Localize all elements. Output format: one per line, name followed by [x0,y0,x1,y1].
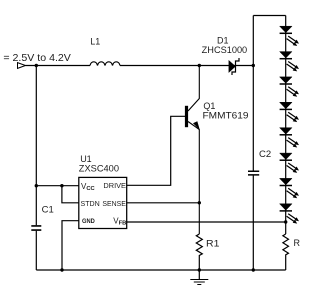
svg-text:STDN: STDN [81,199,100,208]
wire: left vertical rail [35,66,37,226]
junction: Vcc tap on left rail [35,184,38,187]
svg-text:DRIVE: DRIVE [103,181,126,190]
LED 7 of string [280,153,299,173]
wire: Vcc feed to U1 [36,185,79,187]
LED 6 of string [280,128,299,148]
svg-text:C2: C2 [259,149,271,160]
junction: STDN tie to Vcc [60,184,63,187]
LED 2 of string [280,26,299,46]
wire: LED string vertical [285,16,287,235]
LED 8 of string [280,178,299,198]
junction: GND pin on bottom rail [60,268,63,271]
junction: diode output / C2 branch [252,64,255,67]
LED 4 of string [280,77,299,97]
junction: VFB at LED cathode / R [284,220,287,223]
resistor R1 [196,234,202,270]
wire: vertical branch x=253 top rail down to main wire [252,16,254,66]
diode D1 (schottky) [229,58,239,75]
LED 9 of string [280,204,299,224]
wire: shutdown tie jog [62,186,79,203]
svg-text:GND: GND [82,219,95,225]
junction: C2 on bottom rail [252,268,255,271]
svg-text:R: R [294,238,301,248]
svg-text:SENSE: SENSE [102,199,126,208]
wire: GND pin to bottom rail [62,221,79,270]
input arrow [18,63,26,69]
svg-text:R1: R1 [206,239,219,250]
svg-text:ZHCS1000: ZHCS1000 [202,45,248,55]
svg-text:ZXSC400: ZXSC400 [79,164,119,174]
wire: DRIVE to Q1 base [127,116,185,185]
capacitor C1 [31,226,41,230]
inductor L1 [90,62,120,66]
LED 3 of string [280,52,299,72]
wire: SENSE line [127,202,200,204]
wire: top rail from C2 branch to LED string [253,15,285,17]
wire: main horizontal supply wire [26,65,91,67]
svg-text:FMMT619: FMMT619 [203,110,249,120]
LED 5 of string [280,102,299,122]
svg-text:C1: C1 [42,205,54,216]
svg-text:= 2.5V to 4.2V: = 2.5V to 4.2V [3,53,71,64]
junction: input node on supply wire [35,64,38,67]
wire: bottom ground rail [36,269,285,271]
wire: VFB line [127,221,286,223]
IC U1 ZXSC400 [79,177,127,228]
resistor R [283,234,289,270]
junction: Q1 collector on supply wire [198,64,201,67]
junction: SENSE at Q1 emitter [198,201,201,204]
svg-text:VFB: VFB [113,217,126,227]
junction: R1 / ground on bottom rail [198,268,201,271]
capacitor C2 [248,171,259,175]
svg-text:L1: L1 [90,37,100,47]
wire: C2 branch vertical [252,66,254,171]
svg-text:VCC: VCC [81,182,96,192]
svg-text:U1: U1 [80,154,92,164]
ground [190,270,208,285]
transistor Q1 FMMT619 [185,66,200,235]
